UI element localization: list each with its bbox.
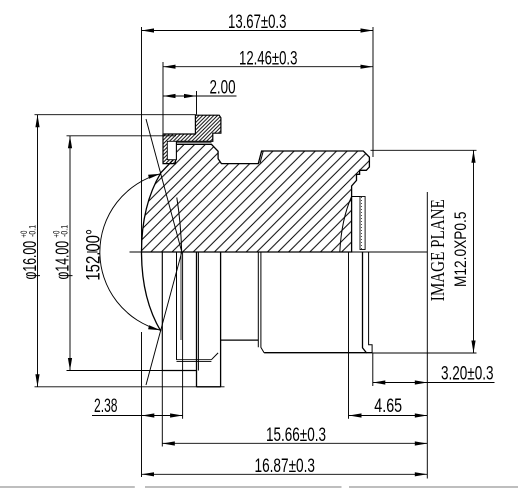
dome surface (lower mirror) xyxy=(142,252,161,331)
svg-text:M12.0XP0.5: M12.0XP0.5 xyxy=(451,212,470,288)
svg-text:4.65: 4.65 xyxy=(374,396,402,417)
dim phi16 xyxy=(35,114,197,116)
dim 4.65 xyxy=(349,415,427,417)
lower groove xyxy=(211,353,218,360)
extension line rear flange x=373 xyxy=(372,27,374,386)
svg-text:φ16.00: φ16.00 xyxy=(20,241,40,280)
dim 3.20 xyxy=(373,382,495,384)
lower edges: verticals xyxy=(161,252,163,371)
centerline xyxy=(87,251,427,253)
dim 2.38 xyxy=(92,415,183,417)
svg-text:16.87±0.3: 16.87±0.3 xyxy=(255,456,316,477)
dim 2.00 xyxy=(163,95,237,97)
svg-text:152.00°: 152.00° xyxy=(84,229,105,281)
svg-text:12.46±0.3: 12.46±0.3 xyxy=(239,48,297,69)
M12 thread dim xyxy=(371,149,477,151)
svg-text:-0.1: -0.1 xyxy=(27,225,37,237)
groove rise second chamfer line xyxy=(260,151,263,163)
retainer ring section xyxy=(163,115,221,163)
svg-text:2.38: 2.38 xyxy=(94,396,118,417)
IR filter glass xyxy=(360,197,365,250)
dim 13.67 xyxy=(142,30,374,32)
extension line apex x=183.5 xyxy=(182,252,184,419)
lower silhouette: phi14 lip bottom xyxy=(162,370,196,372)
svg-text:3.20±0.3: 3.20±0.3 xyxy=(441,364,494,385)
FOV ray lower xyxy=(146,252,182,385)
title block top border xyxy=(0,486,518,488)
rear lens element surface xyxy=(340,197,352,253)
extension line lip face x=163 xyxy=(161,62,164,447)
lower rear step xyxy=(363,252,367,353)
FOV ray upper xyxy=(146,119,182,252)
extension line front vertex x=141.5 xyxy=(141,27,143,477)
rear bore step xyxy=(352,196,360,198)
lens flange gap lines xyxy=(176,141,211,143)
svg-text:IMAGE PLANE: IMAGE PLANE xyxy=(427,199,449,301)
dim 12.46 xyxy=(163,66,373,68)
svg-text:2.00: 2.00 xyxy=(210,77,236,98)
retainer groove pocket xyxy=(167,141,176,159)
svg-text:φ14.00: φ14.00 xyxy=(52,241,72,280)
dim 15.66 xyxy=(162,442,427,444)
svg-text:13.67±0.3: 13.67±0.3 xyxy=(228,12,286,33)
image plane line xyxy=(426,192,428,479)
dim 16.87 xyxy=(142,473,428,475)
extension line x=196.5 (2.00) xyxy=(196,91,198,115)
svg-text:-0.1: -0.1 xyxy=(60,225,70,237)
extension line rear face x=348.2 xyxy=(348,252,350,419)
lens element 1 rear surface xyxy=(177,198,182,253)
dim phi14 xyxy=(67,135,177,137)
angle arc 152deg xyxy=(100,174,161,331)
lower strip lines xyxy=(177,360,212,362)
svg-text:15.66±0.3: 15.66±0.3 xyxy=(266,425,326,446)
lens barrel section (upper half) xyxy=(142,144,370,252)
lower silhouette: phi16 ring bottom xyxy=(197,386,221,388)
